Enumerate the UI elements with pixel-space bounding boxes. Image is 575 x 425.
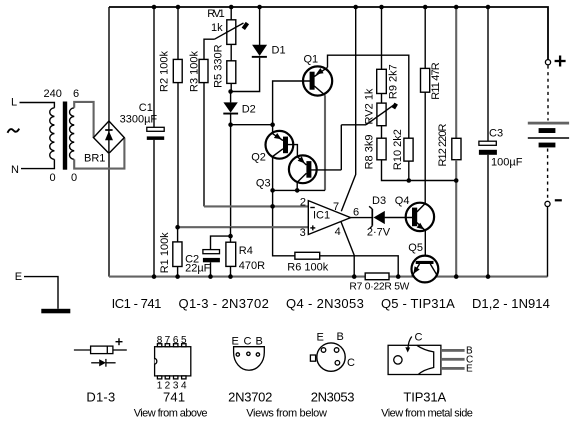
wire top supply bus xyxy=(109,7,548,60)
svg-text:3300µF: 3300µF xyxy=(120,114,158,126)
capacitor C1 xyxy=(153,7,155,127)
transformer T1 core xyxy=(63,102,67,170)
svg-text:1: 1 xyxy=(157,380,163,391)
node IC1 pin 2 / R6 xyxy=(270,204,275,209)
svg-text:6: 6 xyxy=(173,335,179,346)
resistor R6 xyxy=(295,252,320,259)
wire battery dashed positive xyxy=(547,66,549,121)
wire collectors junction to Q1 collector xyxy=(273,189,325,191)
node top bus / RV1 xyxy=(229,5,234,10)
resistor R3 xyxy=(203,83,205,207)
diode D2 xyxy=(230,92,232,103)
resistor R10 xyxy=(404,138,413,161)
svg-text:N: N xyxy=(11,164,19,176)
transistor package 2N3702 xyxy=(234,347,265,371)
svg-text:Views from below: Views from below xyxy=(246,408,327,420)
svg-text:0: 0 xyxy=(71,172,77,184)
svg-text:Q4: Q4 xyxy=(395,195,410,207)
svg-text:8: 8 xyxy=(157,335,163,346)
node R8 / R10 xyxy=(407,178,412,183)
transistor Q4 xyxy=(406,203,434,231)
capacitor C2 xyxy=(211,236,231,250)
node top bus / C3 xyxy=(486,5,491,10)
capacitor C3 xyxy=(487,7,489,141)
svg-text:E: E xyxy=(232,336,239,348)
svg-text:D1: D1 xyxy=(272,45,286,57)
svg-text:240: 240 xyxy=(44,88,62,100)
svg-text:Q5: Q5 xyxy=(408,242,423,254)
diode D1 xyxy=(259,7,261,45)
resistor R4 xyxy=(230,227,232,242)
wire pin2 node down to R6 xyxy=(273,206,295,255)
wire 0V bus xyxy=(109,276,548,278)
svg-text:RV2 1k: RV2 1k xyxy=(364,88,376,124)
svg-text:TIP31A: TIP31A xyxy=(403,390,446,405)
svg-text:RV1: RV1 xyxy=(207,8,225,20)
wire Q3 base xyxy=(311,169,341,171)
node 0V / C2 xyxy=(208,274,213,279)
wire Q4 emitter to Q5 base xyxy=(424,231,426,261)
svg-text:22µF: 22µF xyxy=(185,263,211,275)
svg-text:R3 100k: R3 100k xyxy=(188,51,200,92)
node top bus / C1 xyxy=(152,5,157,10)
potentiometer RV1 xyxy=(230,7,232,20)
resistor R9 xyxy=(381,7,383,69)
svg-text:470R: 470R xyxy=(239,260,265,272)
svg-text:6: 6 xyxy=(73,88,79,100)
wire Q2 collector down xyxy=(272,157,274,191)
wire RV2 wiper to Q3 base xyxy=(340,125,342,170)
node N terminal wire xyxy=(21,159,54,168)
svg-text:C: C xyxy=(415,332,423,344)
svg-text:E: E xyxy=(317,332,324,344)
svg-text:B: B xyxy=(337,331,344,343)
svg-text:R4: R4 xyxy=(239,245,253,257)
node Q3 collector xyxy=(295,188,300,193)
svg-text:Q1: Q1 xyxy=(304,54,319,66)
transistor Q1 xyxy=(303,66,332,95)
svg-text:Q3: Q3 xyxy=(256,178,271,190)
transistor package 2N3053 xyxy=(317,343,345,371)
svg-text:7: 7 xyxy=(165,335,171,346)
parts list row xyxy=(112,296,550,311)
node 0V / R12 xyxy=(454,274,459,279)
svg-text:IC1: IC1 xyxy=(313,210,330,222)
svg-text:R2 100k: R2 100k xyxy=(159,51,171,92)
wire IC1 pin 3 (grey) xyxy=(178,226,309,228)
svg-text:Q5 - TIP31A: Q5 - TIP31A xyxy=(381,296,455,311)
svg-text:C: C xyxy=(347,357,355,369)
label ac symbol xyxy=(8,129,20,133)
resistor R7 xyxy=(365,273,389,280)
wire secondary bottom to bridge right xyxy=(74,138,124,169)
wire IC1 output pin 6 xyxy=(351,217,374,219)
node top bus / R11 xyxy=(423,5,428,10)
node 0V / R4 xyxy=(228,274,233,279)
wire Q3 collector down xyxy=(296,182,298,190)
node top bus / R12 xyxy=(454,5,459,10)
node top bus / D1 xyxy=(257,5,262,10)
wire Q1 base xyxy=(273,81,310,125)
svg-text:R5 330R: R5 330R xyxy=(212,44,224,87)
svg-text:6: 6 xyxy=(353,206,359,218)
node top bus / IC1 pin 7 xyxy=(353,5,358,10)
node R8 wire / R12 xyxy=(454,178,459,183)
node 0V / IC1 pin 4 / R7 xyxy=(352,274,357,279)
wire battery dashed negative xyxy=(547,149,549,202)
node R5 / D1 / D2 xyxy=(228,89,233,94)
zener diode D3 xyxy=(371,209,373,226)
resistor R5 xyxy=(227,61,236,84)
svg-text:R7 0·22R 5W: R7 0·22R 5W xyxy=(349,282,409,293)
wire Q1 emitter to R10 xyxy=(328,55,409,138)
wire R5/D1 junction xyxy=(231,58,259,92)
svg-text:Q2: Q2 xyxy=(251,152,266,164)
wire secondary top to bridge left xyxy=(74,102,93,138)
wire D3 to Q4 base xyxy=(385,217,413,219)
wire IC1 pin 4 to 0V xyxy=(341,222,354,277)
IC package 741 xyxy=(155,347,191,376)
transistor Q3 xyxy=(289,155,317,183)
wire Q2 emitter xyxy=(272,125,274,134)
pinout diagrams xyxy=(74,337,465,379)
node top bus / R9 xyxy=(379,5,384,10)
svg-text:View from above: View from above xyxy=(134,408,208,420)
node R2 / R1 / IC1 pin 3 xyxy=(175,225,180,230)
wire Q1 collector (grey) xyxy=(324,95,326,190)
svg-text:Q4 - 2N3053: Q4 - 2N3053 xyxy=(286,296,364,311)
battery positive terminal xyxy=(545,60,550,65)
wire Q2 base to Q3 emitter xyxy=(288,145,298,157)
svg-text:C1: C1 xyxy=(139,102,153,114)
transformer T1 primary winding xyxy=(50,108,55,160)
svg-text:1k: 1k xyxy=(211,22,223,34)
svg-text:2N3702: 2N3702 xyxy=(228,390,273,405)
resistor R11 xyxy=(424,7,426,68)
node D2 cathode xyxy=(228,122,233,127)
svg-text:BR1: BR1 xyxy=(84,153,105,165)
svg-text:L: L xyxy=(11,97,17,109)
node R7 / R6 / Q5 emitter xyxy=(396,274,401,279)
svg-text:View from metal side: View from metal side xyxy=(381,408,473,420)
svg-text:0: 0 xyxy=(50,172,56,184)
bridge rectifier BR1 xyxy=(94,121,125,153)
svg-text:5: 5 xyxy=(181,335,187,346)
svg-text:2·7V: 2·7V xyxy=(367,226,391,238)
node L terminal wire xyxy=(20,103,55,108)
svg-text:Q1-3 - 2N3702: Q1-3 - 2N3702 xyxy=(179,296,270,311)
svg-text:3: 3 xyxy=(300,227,306,239)
transformer T1 secondary winding xyxy=(70,108,75,160)
op-amp IC1 xyxy=(308,201,350,235)
transistor Q2 xyxy=(266,131,294,159)
svg-text:C: C xyxy=(244,336,252,348)
node E earth wire xyxy=(24,277,58,309)
svg-text:R8 3k9: R8 3k9 xyxy=(364,135,376,170)
svg-text:IC1 - 741: IC1 - 741 xyxy=(112,296,162,311)
transistor Q5 xyxy=(412,256,439,283)
wire D2 cathode to Q1 base / Q2 emitter junction xyxy=(231,124,273,126)
wire left vertical from top bus through BR1 to 0V bus xyxy=(108,7,110,122)
svg-text:D1-3: D1-3 xyxy=(86,390,115,405)
svg-text:C3: C3 xyxy=(489,128,503,140)
wire IC1 pin 2 (grey) xyxy=(204,205,308,207)
svg-text:741: 741 xyxy=(163,390,185,405)
transistor package TIP31A xyxy=(388,345,441,374)
pinout labels xyxy=(86,331,473,420)
wire negative terminal to 0V bus xyxy=(547,207,549,277)
potentiometer RV2 xyxy=(377,103,386,126)
ground symbol xyxy=(41,309,70,314)
battery negative terminal xyxy=(545,201,550,206)
svg-text:2: 2 xyxy=(300,197,306,209)
resistor R2 xyxy=(177,7,179,59)
svg-text:R11 47R: R11 47R xyxy=(430,62,442,100)
resistor R8 xyxy=(377,138,386,160)
resistor R12 on grey line xyxy=(455,7,457,138)
svg-text:R10 2k2: R10 2k2 xyxy=(392,129,404,170)
wire Q4 collector to R11 xyxy=(424,92,426,203)
svg-text:E: E xyxy=(466,364,473,375)
svg-text:4: 4 xyxy=(335,226,341,238)
svg-text:R9 2k7: R9 2k7 xyxy=(388,64,400,99)
wire junction down to pin2 xyxy=(272,190,274,206)
svg-text:R1 100k: R1 100k xyxy=(159,232,171,273)
svg-text:2N3053: 2N3053 xyxy=(311,390,355,405)
resistor R1 xyxy=(177,227,179,242)
svg-text:D1,2 - 1N914: D1,2 - 1N914 xyxy=(472,296,550,311)
battery cells xyxy=(528,122,569,125)
svg-text:100µF: 100µF xyxy=(491,157,523,169)
svg-text:R12 220R: R12 220R xyxy=(437,123,449,166)
wire IC1 pin 7 to top bus xyxy=(341,7,355,211)
svg-text:R6 100k: R6 100k xyxy=(287,261,328,273)
diode package D1-3 xyxy=(74,349,91,351)
svg-text:D2: D2 xyxy=(242,103,256,115)
svg-text:7: 7 xyxy=(333,201,339,213)
node 0V / C1 xyxy=(152,274,157,279)
svg-text:D3: D3 xyxy=(372,195,386,207)
node Q2 collector xyxy=(270,188,275,193)
svg-text:B: B xyxy=(256,336,263,348)
node top bus / R2 xyxy=(176,5,181,10)
node Q1 base / Q2 emitter xyxy=(270,122,275,127)
svg-text:E: E xyxy=(15,271,22,283)
node 0V / C3 xyxy=(486,274,491,279)
node 0V / R1 xyxy=(175,274,180,279)
node C2 / R4 xyxy=(228,234,233,239)
